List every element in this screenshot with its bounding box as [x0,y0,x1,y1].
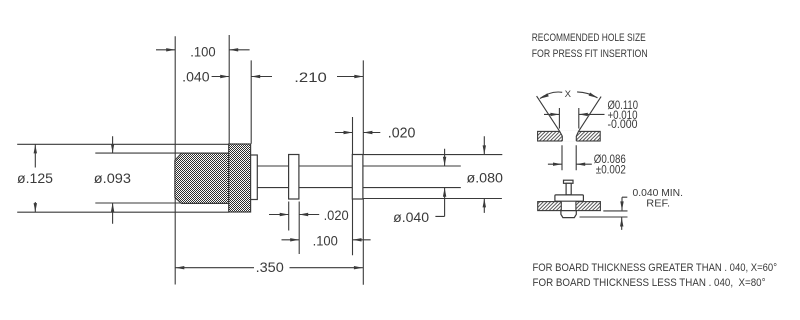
svg-text:.100: .100 [190,44,215,59]
svg-text:.020: .020 [388,126,416,142]
svg-text:ø.080: ø.080 [467,171,504,186]
svg-text:RECOMMENDED HOLE SIZE: RECOMMENDED HOLE SIZE [532,32,646,44]
svg-text:.210: .210 [294,70,327,85]
svg-text:.020: .020 [324,208,349,223]
svg-text:FOR PRESS FIT INSERTION: FOR PRESS FIT INSERTION [532,48,648,60]
svg-text:REF.: REF. [646,198,670,209]
svg-text:.100: .100 [313,233,338,248]
svg-text:ø.125: ø.125 [17,171,53,186]
svg-text:ø.093: ø.093 [94,171,131,186]
svg-text:±0.002: ±0.002 [596,162,626,176]
svg-text:FOR BOARD THICKNESS LESS THAN: FOR BOARD THICKNESS LESS THAN . 040, X=8… [533,277,766,289]
svg-text:.040: .040 [182,70,209,85]
svg-text:.350: .350 [256,260,284,275]
svg-text:-0.000: -0.000 [608,117,638,131]
svg-text:ø.040: ø.040 [393,210,429,225]
svg-text:FOR BOARD THICKNESS GREATER TH: FOR BOARD THICKNESS GREATER THAN . 040, … [533,262,778,274]
svg-text:X: X [565,89,571,99]
